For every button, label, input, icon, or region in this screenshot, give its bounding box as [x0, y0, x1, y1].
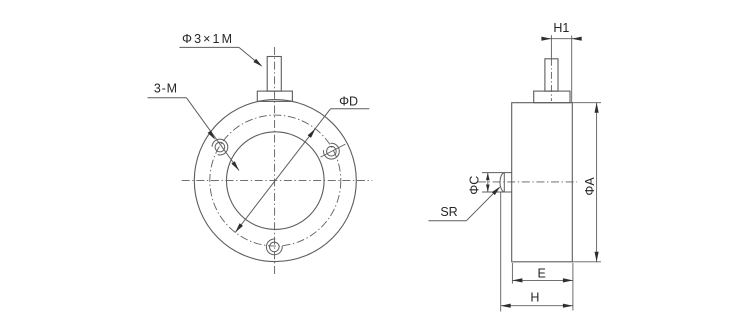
- H1 dimension line: [542, 38, 581, 40]
- H dimension line: [501, 305, 573, 307]
- H arrowhead left: [501, 304, 511, 308]
- front view bore circle: [226, 132, 324, 230]
- E arrowhead left: [512, 278, 522, 282]
- ΦD arrowhead lower-left: [235, 223, 243, 232]
- 3-M arrowhead at hole edge: [208, 131, 216, 140]
- bolt circle (dash-dot): [210, 115, 341, 246]
- ΦC arrowhead down: [486, 185, 490, 193]
- svg-text:3-M: 3-M: [154, 81, 178, 95]
- ΦC dimension line: [487, 173, 489, 192]
- Φ3×1M leader underline: [179, 46, 239, 48]
- front view outer circle (body): [194, 100, 356, 262]
- svg-text:Φ3×1M: Φ3×1M: [182, 32, 234, 46]
- E arrowhead right: [563, 278, 573, 282]
- Φ3×1M leader diagonal: [239, 47, 261, 65]
- radial centerline through upper-right hole: [321, 144, 346, 157]
- H1 arrowhead left (outside, pointing right): [541, 37, 551, 41]
- H arrowhead right: [563, 304, 573, 308]
- svg-text:E: E: [538, 267, 546, 281]
- ΦA arrowhead top: [595, 103, 599, 113]
- boss (front view): [257, 91, 292, 101]
- ΦA arrowhead bottom: [595, 252, 599, 262]
- SR arrowhead: [492, 187, 501, 196]
- svg-text:ΦC: ΦC: [467, 176, 481, 195]
- SR leader underline: [428, 220, 466, 222]
- svg-text:ΦD: ΦD: [339, 94, 358, 108]
- svg-text:H1: H1: [553, 21, 569, 35]
- threaded hole 3-M (upper-left) minor circle: [215, 142, 225, 152]
- protrusion bottom line / ΦC extension: [482, 191, 512, 193]
- 3-M leader line through hole: [187, 98, 240, 171]
- E dimension line: [512, 279, 573, 281]
- 3-M arrowhead at line end: [231, 161, 239, 170]
- ΦC arrowhead up: [486, 173, 490, 181]
- ΦA bottom extension line: [572, 261, 601, 263]
- 3-M leader underline: [148, 97, 187, 99]
- threaded hole 3-M (upper-right) minor circle: [327, 146, 337, 156]
- E/H right extension line: [572, 263, 574, 311]
- side view stud centerline: [550, 59, 552, 101]
- H left extension line: [500, 192, 502, 312]
- side view stud: [545, 59, 558, 91]
- side view horizontal centerline: [478, 181, 577, 183]
- svg-text:H: H: [530, 291, 539, 305]
- ΦA dimension line: [596, 103, 598, 262]
- svg-text:ΦA: ΦA: [583, 177, 597, 196]
- threaded hole 3-M (upper-left) thread arc: [212, 139, 228, 155]
- threaded hole 3-M (bottom) thread arc: [266, 239, 282, 255]
- stud (front view): [267, 57, 281, 92]
- protrusion chord line: [503, 173, 505, 192]
- side view body: [512, 103, 573, 262]
- threaded hole 3-M (upper-right) thread arc: [324, 143, 340, 159]
- svg-text:SR: SR: [440, 205, 457, 219]
- protrusion spherical end arc: [500, 173, 504, 192]
- SR leader diagonal: [466, 187, 499, 221]
- Φ3×1M arrowhead: [253, 59, 262, 67]
- ΦA top extension line: [572, 102, 601, 104]
- side view boss: [534, 91, 570, 103]
- H1 right extension line: [571, 36, 573, 103]
- H1 left extension line: [550, 35, 552, 59]
- ΦD arrowhead upper-right: [308, 129, 316, 138]
- E left extension line: [511, 263, 513, 284]
- protrusion top line / ΦC extension: [482, 172, 512, 174]
- threaded hole 3-M (bottom) minor circle: [270, 242, 280, 252]
- front view horizontal centerline: [182, 180, 373, 182]
- H1 arrowhead right (outside, pointing left): [572, 37, 582, 41]
- ΦD dimension line across bolt circle: [235, 109, 330, 233]
- front view vertical centerline: [274, 47, 276, 276]
- ΦD leader underline: [331, 108, 370, 110]
